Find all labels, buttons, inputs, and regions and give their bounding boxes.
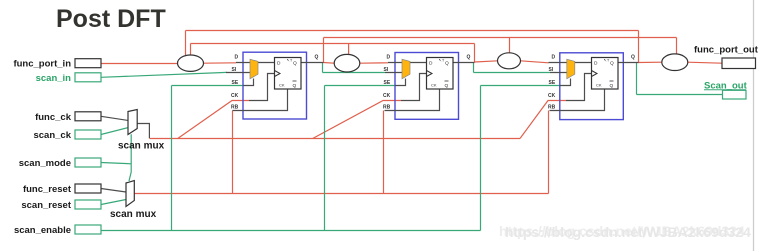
FF1 input mux (orange) — [250, 59, 258, 79]
wire Q1 to cloud2 — [324, 62, 335, 65]
FF1 CK internal wire — [249, 74, 275, 101]
wire scan_enable riser to FF2 SE — [325, 86, 396, 231]
FF2 clock triangle — [427, 71, 433, 77]
svg-text:Q: Q — [445, 61, 449, 67]
slide right border line — [753, 0, 755, 251]
wire red bus B (Q2 feedback to cloud1/cloud2) — [191, 44, 475, 63]
FF2 D flip-flop symbol — [427, 58, 454, 90]
wire scan_mode to scan mux selects — [101, 134, 131, 181]
svg-text:Q: Q — [293, 61, 297, 67]
svg-text:D: D — [429, 61, 433, 67]
wire scan_reset to scan mux 2 — [101, 200, 126, 205]
FF2 internal pin labels — [429, 58, 449, 90]
svg-text:Q: Q — [293, 83, 297, 89]
FF1 D wire through mux — [236, 62, 275, 64]
wire cloud1 to FF1 D — [204, 62, 237, 64]
wire func_ck to scan mux 1 — [101, 116, 128, 120]
FF3 RB internal wire — [550, 89, 605, 111]
wire cloud3 to FF3 D — [520, 61, 548, 63]
svg-text:RB: RB — [231, 105, 239, 111]
svg-text:scan_reset: scan_reset — [21, 200, 71, 211]
wire scan_ck to scan mux 1 — [101, 128, 128, 135]
FF2 blue boundary box — [395, 53, 459, 120]
svg-text:SE: SE — [384, 80, 391, 86]
svg-text:Q: Q — [610, 83, 614, 89]
svg-text:D: D — [235, 55, 239, 61]
svg-text:SE: SE — [549, 80, 556, 86]
wire scan chain Q2 to FF3 SI — [474, 62, 551, 73]
wire scan_enable bus — [101, 230, 481, 232]
cloud ellipse 1 — [178, 55, 204, 71]
svg-text:func_ck: func_ck — [35, 112, 72, 123]
svg-text:CK: CK — [383, 93, 391, 99]
wire cloud2 to FF2 D — [360, 62, 388, 64]
port scan_enable — [75, 225, 101, 234]
svg-text:CK: CK — [548, 93, 556, 99]
FF3 D wire through mux — [549, 62, 592, 64]
wire scan mux 1 output — [137, 124, 149, 139]
FF1 pin labels — [231, 55, 319, 111]
FF3 internal pin labels — [594, 58, 614, 90]
cloud ellipse 4 — [662, 54, 688, 71]
wire scan_enable riser to FF1 SE — [172, 86, 244, 231]
FF2 CK internal wire — [401, 74, 427, 101]
svg-text:Q: Q — [467, 55, 471, 61]
svg-text:CK: CK — [431, 83, 437, 88]
svg-text:https://blog.csdn.net/WJBA2k69: https://blog.csdn.net/WJBA2k69d324 — [505, 224, 751, 240]
svg-text:SI: SI — [232, 67, 237, 73]
svg-text:D: D — [387, 55, 391, 61]
svg-text:↖T: ↖T — [604, 58, 610, 63]
svg-text:CK: CK — [231, 93, 239, 99]
port scan_reset — [75, 200, 101, 209]
FF1 D flip-flop symbol — [275, 58, 302, 90]
wire scan_in to FF1 SI — [101, 72, 227, 77]
svg-text:↖T: ↖T — [287, 58, 293, 63]
svg-text:CK: CK — [596, 83, 602, 88]
wire scan chain Q3 to Scan_out — [637, 63, 723, 95]
FF1 clock triangle — [275, 71, 281, 77]
port func_reset — [75, 184, 101, 193]
svg-text:func_port_in: func_port_in — [13, 59, 71, 70]
svg-text:Q: Q — [631, 55, 635, 61]
wire red reset bus from scan mux 2 — [134, 111, 548, 194]
svg-text:SE: SE — [232, 80, 239, 86]
FF2 input mux (orange) — [402, 59, 410, 79]
scan mux 2 (reset) — [126, 181, 134, 207]
FF3 SI stub — [550, 72, 567, 74]
wire func_port_in to cloud1 — [101, 63, 178, 65]
FF3 D flip-flop symbol — [592, 58, 619, 90]
wire scan_enable riser to FF3 SE — [481, 86, 561, 231]
flip-flop cell FF3 — [548, 53, 639, 120]
watermark https://blog.csdn.net — [499, 223, 751, 240]
svg-text:RB: RB — [548, 105, 556, 111]
FF1 internal pin labels — [277, 58, 297, 90]
wire red clock bus from scan mux 1 — [150, 101, 567, 139]
wire red bus A (Q3 feedback to cloud1) — [186, 31, 639, 63]
scan mux 1 (clock) — [128, 110, 137, 135]
FF1 SI stub — [226, 72, 250, 74]
svg-text:CK: CK — [279, 83, 285, 88]
svg-text:scan_ck: scan_ck — [33, 130, 71, 141]
port scan_in — [75, 73, 101, 82]
FF2 D wire through mux — [388, 62, 427, 64]
wire Q2 to cloud3 — [475, 61, 498, 62]
flip-flop cell FF1 — [226, 52, 324, 119]
svg-text:D: D — [594, 61, 598, 67]
svg-text:D: D — [277, 61, 281, 67]
FF3 pin labels — [548, 55, 635, 111]
FF2 SI stub — [385, 72, 402, 74]
svg-text:scan_enable: scan_enable — [14, 225, 71, 236]
port func_port_in — [75, 59, 101, 68]
FF2 RB internal wire — [385, 89, 440, 111]
FF3 clock triangle — [592, 71, 598, 77]
port scan_ck — [75, 130, 101, 139]
svg-text:Q: Q — [445, 83, 449, 89]
wire Q3 to cloud4 — [639, 61, 662, 63]
FF2 Q wire — [453, 62, 475, 64]
wire func_reset to scan mux 2 — [101, 189, 126, 193]
svg-text:↖T: ↖T — [439, 58, 445, 63]
svg-text:Q: Q — [315, 55, 319, 61]
svg-text:scan mux: scan mux — [110, 209, 157, 220]
FF3 blue boundary box — [560, 53, 624, 120]
svg-text:scan_in: scan_in — [36, 73, 72, 84]
FF1 RB internal wire — [233, 89, 288, 111]
FF1 blue boundary box — [243, 52, 307, 119]
FF3 CK internal wire — [566, 74, 592, 101]
FF3 SE internal wire — [560, 79, 571, 86]
svg-text:func_reset: func_reset — [23, 184, 72, 195]
svg-text:D: D — [552, 55, 556, 61]
svg-text:scan mux: scan mux — [118, 141, 165, 152]
FF2 SE internal wire — [395, 79, 406, 86]
port scan_mode — [75, 158, 101, 167]
FF1 Q wire — [301, 62, 324, 64]
FF2 pin labels — [383, 55, 471, 111]
flip-flop cell FF2 — [383, 53, 475, 120]
svg-text:Post DFT: Post DFT — [56, 5, 166, 33]
wire scan chain Q1 to FF2 SI — [323, 63, 386, 73]
cloud ellipse 3 — [498, 53, 521, 69]
port func_ck — [75, 112, 101, 121]
FF3 input mux (orange) — [567, 59, 575, 79]
svg-text:scan_mode: scan_mode — [19, 158, 71, 169]
svg-text:RB: RB — [383, 105, 391, 111]
svg-text:SI: SI — [384, 67, 389, 73]
FF1 SE internal wire — [243, 79, 254, 86]
wire red bus C (Q1 to cloud3/cloud4) — [324, 38, 677, 63]
svg-text:func_port_out: func_port_out — [694, 45, 759, 56]
cloud ellipse 2 — [334, 54, 360, 72]
svg-text:SI: SI — [549, 67, 554, 73]
wire cloud4 to func_port_out — [688, 62, 722, 63]
svg-text:Q: Q — [610, 61, 614, 67]
FF3 Q wire — [618, 62, 639, 64]
